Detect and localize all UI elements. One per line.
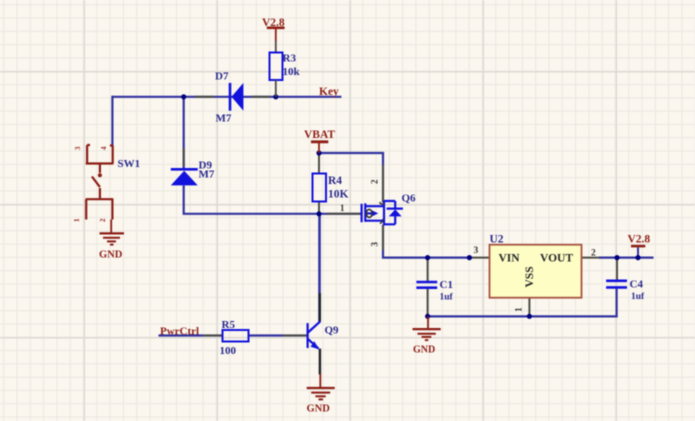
ground GND under C1 [413, 316, 441, 340]
diode D7 [230, 83, 243, 111]
wire R5 to Q9 base [249, 334, 307, 336]
svg-text:2: 2 [591, 249, 596, 259]
wire ground rail bottom [428, 289, 617, 317]
power V2.8 right [628, 234, 651, 247]
svg-text:R5: R5 [222, 319, 236, 331]
svg-text:1: 1 [515, 307, 525, 312]
wire Key net horizontal [112, 96, 341, 98]
wire VOUT to V2.8 [599, 257, 654, 259]
wire C1 top stub [427, 258, 429, 281]
svg-text:R4: R4 [328, 175, 342, 187]
svg-text:1uf: 1uf [631, 292, 645, 302]
svg-text:VSS: VSS [524, 266, 536, 287]
ground GND under SW1 [100, 233, 125, 244]
svg-text:V2.8: V2.8 [628, 234, 651, 246]
svg-text:PwrCtrl: PwrCtrl [160, 326, 199, 338]
wire Q9 emitter stem red [319, 374, 321, 388]
svg-text:R3: R3 [283, 53, 297, 65]
svg-text:10K: 10K [328, 189, 349, 201]
svg-text:3: 3 [474, 246, 479, 256]
svg-text:10k: 10k [283, 66, 301, 78]
power V2.8 top [262, 17, 285, 53]
Q9 emitter arrow [311, 341, 320, 349]
wire SW1 pin2 to ground [110, 220, 112, 234]
wire Q6 source pin segment [382, 225, 384, 250]
SW1 lever pivot dot [98, 173, 102, 177]
power VBAT [304, 129, 335, 153]
wire U2 VOUT pin stub [582, 257, 601, 259]
svg-text:Key: Key [319, 86, 339, 98]
wire VBAT junction to Q6 drain [319, 153, 383, 203]
wire Q6 drain pin segment [382, 165, 384, 203]
wire U2 VIN pin stub [469, 257, 489, 259]
transistor Q9 npn [308, 321, 321, 348]
wire U2 VSS pin stub [528, 298, 530, 317]
wire C1 bottom stub [427, 289, 429, 317]
wire Q9 emitter to GND [319, 349, 321, 375]
diode D9 [171, 169, 198, 185]
svg-text:3: 3 [370, 242, 380, 247]
svg-text:SW1: SW1 [118, 158, 141, 170]
wire V2.8 stem [637, 248, 639, 258]
capacitor C4 [606, 281, 627, 288]
svg-text:1: 1 [73, 218, 81, 222]
svg-text:VOUT: VOUT [540, 253, 573, 265]
svg-text:VBAT: VBAT [304, 129, 335, 141]
transistor Q6 pmos [362, 201, 403, 226]
resistor R5 [223, 330, 249, 342]
wire D9 bottom to gate rail [184, 186, 319, 214]
svg-text:GND: GND [413, 345, 435, 356]
wire D9 anode drop [183, 97, 185, 168]
svg-text:2: 2 [99, 218, 107, 222]
wire SW1 pin4 drop [111, 96, 113, 146]
capacitor C1 [416, 282, 437, 288]
svg-text:100: 100 [220, 345, 237, 357]
Q6 channel arrow [372, 210, 379, 216]
svg-text:1uf: 1uf [440, 293, 454, 303]
wire PwrCtrl to R5 [159, 334, 223, 336]
wire Q6 source down to VIN rail [383, 225, 469, 258]
Q6 pin name tick bottom [380, 219, 383, 224]
svg-text:VIN: VIN [499, 253, 521, 265]
svg-text:1: 1 [340, 203, 345, 213]
Q6 pin name glyph O [366, 209, 372, 217]
svg-text:Q9: Q9 [325, 325, 340, 337]
svg-text:2: 2 [370, 179, 380, 184]
svg-text:U2: U2 [490, 234, 504, 246]
ground GND under Q9 [307, 388, 335, 399]
wire VBAT to R4 top [318, 153, 320, 174]
svg-text:M7: M7 [199, 169, 215, 181]
svg-text:GND: GND [307, 404, 331, 415]
switch SW1 [86, 145, 114, 220]
wire R4 bottom to junction [318, 202, 320, 214]
svg-text:GND: GND [99, 250, 123, 261]
wire gate of Q6 [319, 213, 361, 215]
resistor R4 [313, 174, 327, 202]
Q6 body diode triangle [389, 209, 402, 216]
svg-text:Q6: Q6 [402, 193, 417, 205]
wire C4 top stub [616, 258, 618, 280]
svg-text:M7: M7 [216, 113, 232, 125]
Q6 pin name tick top [380, 202, 385, 204]
svg-text:C1: C1 [440, 279, 453, 291]
wire junction to Q9 collector [318, 214, 321, 322]
resistor R3 [270, 53, 283, 97]
svg-text:4: 4 [100, 146, 108, 150]
svg-text:D7: D7 [215, 71, 229, 83]
svg-text:3: 3 [74, 146, 82, 150]
svg-text:C4: C4 [630, 279, 644, 291]
regulator U2 box [490, 245, 582, 298]
